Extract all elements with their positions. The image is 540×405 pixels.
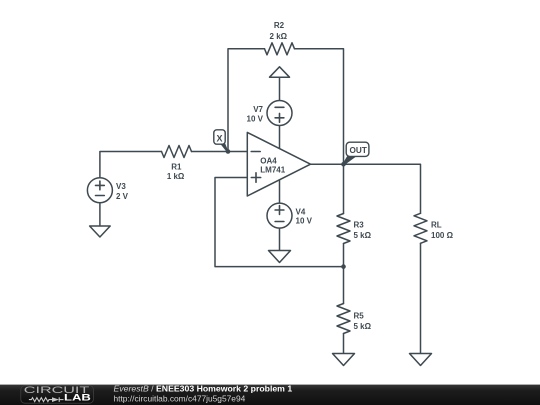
svg-text:10 V: 10 V [247, 115, 264, 124]
svg-text:R1: R1 [171, 163, 182, 172]
svg-text:R2: R2 [274, 21, 285, 30]
svg-text:2 V: 2 V [116, 192, 129, 201]
svg-text:OUT: OUT [350, 146, 367, 155]
svg-text:V4: V4 [296, 208, 306, 217]
svg-text:EverestB / ENEE303 Homework 2: EverestB / ENEE303 Homework 2 problem 1 [114, 383, 293, 393]
svg-text:1 kΩ: 1 kΩ [167, 172, 185, 181]
svg-text:R3: R3 [354, 221, 365, 230]
svg-text:LAB: LAB [64, 393, 92, 403]
svg-text:5 kΩ: 5 kΩ [354, 322, 372, 331]
svg-text:100 Ω: 100 Ω [431, 231, 454, 240]
svg-text:5 kΩ: 5 kΩ [354, 231, 372, 240]
svg-text:10 V: 10 V [296, 217, 313, 226]
svg-text:RL: RL [431, 221, 442, 230]
svg-text:R5: R5 [354, 312, 365, 321]
svg-text:LM741: LM741 [260, 165, 285, 174]
svg-text:OA4: OA4 [260, 157, 277, 166]
svg-text:2 kΩ: 2 kΩ [270, 32, 288, 41]
svg-text:V7: V7 [253, 105, 263, 114]
svg-text:V3: V3 [116, 182, 126, 191]
svg-text:X: X [216, 134, 222, 144]
svg-text:http://circuitlab.com/c477ju5g: http://circuitlab.com/c477ju5g57e94 [114, 393, 246, 403]
